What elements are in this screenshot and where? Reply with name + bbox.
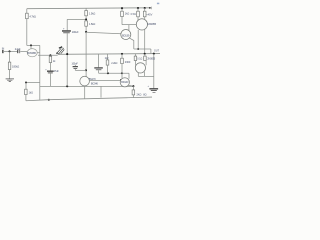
wire y73 line bbox=[99, 73, 129, 78]
transistor Q3 BD139 bbox=[121, 30, 131, 40]
svg-text:MJ2955: MJ2955 bbox=[148, 22, 157, 26]
wire R8a to Q5 bbox=[137, 17, 139, 20]
node collector T1 bbox=[30, 44, 32, 46]
wire input line bbox=[4, 50, 17, 52]
svg-text:0.5Ω: 0.5Ω bbox=[131, 13, 136, 16]
wire long vertical x40 bbox=[39, 45, 41, 100]
svg-text:8Ω: 8Ω bbox=[143, 94, 146, 97]
resistor R8b bbox=[143, 11, 146, 17]
wire left drop from top rail bbox=[26, 9, 28, 14]
svg-text:1kΩ: 1kΩ bbox=[29, 92, 34, 95]
wire R9 stub bbox=[135, 54, 137, 56]
resistor R8a bbox=[137, 11, 140, 17]
wire top tap horizontal bbox=[67, 18, 86, 20]
wire R7 lower bbox=[121, 17, 123, 25]
wire R5 down bbox=[107, 65, 109, 73]
wire C3 to collector node bbox=[75, 69, 86, 71]
svg-text:1.5kΩ: 1.5kΩ bbox=[89, 22, 95, 26]
wire x86 vertical down bbox=[85, 32, 87, 77]
wire Q4 emitter out bbox=[129, 85, 134, 86]
wire T1 emitter line bbox=[37, 53, 58, 56]
wire to R12 bbox=[132, 86, 134, 90]
capacitor C5 plate B bbox=[96, 68, 102, 71]
wire T4 emitter bbox=[84, 86, 86, 99]
resistor R4 1k bbox=[49, 56, 52, 62]
svg-text:2300: 2300 bbox=[125, 60, 131, 64]
node output tap bbox=[153, 53, 155, 55]
node Q5 leg rail bbox=[144, 53, 146, 55]
wire R6 down bbox=[121, 64, 123, 79]
transistor Q5 MJ2955 bbox=[136, 19, 147, 30]
svg-text:BD140: BD140 bbox=[121, 81, 129, 84]
wire R1a R1b bbox=[85, 16, 87, 21]
wire R8b stub bbox=[144, 8, 146, 11]
transistor Q4 BD140 bbox=[120, 78, 129, 87]
resistor R2 4.7k bbox=[26, 13, 29, 19]
node R7 rail bbox=[121, 7, 123, 9]
wire C4 to feedback line bbox=[49, 73, 51, 86]
wire R10 stub bbox=[144, 54, 146, 56]
node y49 bbox=[137, 48, 139, 50]
wire R12 to rail bbox=[132, 95, 134, 98]
wire R1b down bbox=[85, 26, 87, 32]
resistor R10 bbox=[144, 56, 147, 60]
svg-text:+45V: +45V bbox=[146, 13, 152, 17]
transistor T1 BC546 bbox=[27, 49, 37, 57]
capacitor C3 100n plate A bbox=[73, 66, 78, 67]
wire R4 to C4 bbox=[49, 63, 51, 71]
resistor R7 1k bbox=[121, 11, 124, 16]
capacitor C2 100uF plate A bbox=[62, 30, 71, 31]
wire R2 to collector node bbox=[26, 19, 28, 46]
wire R1a stub bbox=[85, 8, 87, 10]
svg-text:100kΩ: 100kΩ bbox=[12, 64, 19, 68]
capacitor C5 shunt stub bbox=[98, 54, 100, 67]
wire y49 line bbox=[134, 49, 151, 54]
wire Q5 leg right bbox=[144, 30, 146, 54]
node feedback tap bbox=[49, 54, 51, 56]
svg-text:100nF: 100nF bbox=[72, 63, 79, 66]
node R8a rail bbox=[137, 7, 139, 9]
wire base drive to BD139 bbox=[86, 32, 121, 34]
node feedback x67 bbox=[66, 85, 68, 87]
wire bias tap line bbox=[26, 82, 40, 84]
resistor R3 100k bbox=[8, 62, 11, 69]
wire R6 stub bbox=[121, 54, 123, 58]
node base drive bbox=[85, 31, 87, 33]
wire top supply rail bbox=[27, 7, 152, 10]
svg-text:47uF: 47uF bbox=[54, 70, 60, 73]
node R8b rail bbox=[144, 7, 146, 9]
transistor Q6 2N3055 bbox=[135, 63, 145, 73]
capacitor C1 input plate B bbox=[18, 50, 21, 54]
node bottom rail bbox=[48, 99, 50, 101]
wire cap to base bbox=[20, 50, 27, 52]
ground output bbox=[153, 91, 156, 94]
capacitor C3 100n plate B bbox=[74, 67, 78, 70]
resistor R1a 1.5k bbox=[85, 11, 88, 16]
node Q4 emitter bbox=[132, 85, 134, 87]
wire resistor R3 drop bbox=[9, 51, 11, 62]
svg-text:100uF: 100uF bbox=[72, 30, 79, 34]
resistor R5 2.2k bbox=[106, 60, 109, 65]
wire Q5 leg left bbox=[137, 30, 139, 49]
svg-text:2N3055: 2N3055 bbox=[147, 56, 156, 60]
capacitor C1 input plate A bbox=[16, 50, 19, 54]
svg-text:0.1Ω: 0.1Ω bbox=[137, 59, 142, 61]
node y73 a bbox=[107, 72, 109, 74]
capacitor C4 47uF plate A bbox=[47, 71, 54, 72]
wire Q6 top legs bbox=[136, 61, 147, 66]
potentiometer P1 bbox=[56, 46, 64, 55]
node bias tap bbox=[25, 82, 27, 84]
node tap x86 bbox=[85, 18, 87, 20]
resistor R12 2K bbox=[132, 90, 135, 95]
svg-text:IN: IN bbox=[2, 48, 5, 51]
resistor R1b 1.5k bbox=[85, 21, 88, 26]
wire driver base line bbox=[89, 80, 120, 82]
ground input bbox=[6, 79, 14, 82]
svg-text:1.5kΩ: 1.5kΩ bbox=[89, 11, 95, 15]
transistor T4 vbe multiplier bbox=[80, 76, 90, 86]
svg-text:BD139: BD139 bbox=[122, 33, 130, 37]
wire R4 stub bbox=[49, 55, 51, 56]
svg-text:OUT: OUT bbox=[154, 49, 160, 52]
node R6 rail bbox=[121, 53, 123, 55]
wire C3 stub bbox=[74, 65, 76, 71]
wire R8b to Q5 bbox=[144, 17, 146, 20]
wire R8a stub bbox=[137, 8, 139, 11]
wire R5 stub bbox=[107, 54, 109, 60]
wire top tap corner x67 bbox=[66, 19, 68, 30]
wire collector stub down bbox=[30, 45, 32, 49]
wire Q3 emitter bbox=[129, 38, 134, 49]
capacitor C2 100uF plate B bbox=[63, 31, 70, 34]
capacitor C6 output plate A bbox=[149, 88, 158, 89]
capacitor C6 output plate B bbox=[151, 89, 157, 92]
wire to R11 bbox=[25, 83, 27, 90]
terminal supply tick bbox=[150, 7, 152, 10]
node driver base bbox=[120, 79, 122, 81]
wire Q3 collector up bbox=[128, 25, 130, 31]
wire bottom ground rail bbox=[26, 97, 152, 101]
wire collector link line bbox=[122, 24, 137, 26]
node C2 mid rail bbox=[66, 53, 68, 55]
node top rail right bbox=[149, 7, 151, 9]
wire feedback bottom line bbox=[40, 85, 134, 87]
node input divider bbox=[9, 50, 11, 52]
svg-text:2.2kΩ: 2.2kΩ bbox=[111, 62, 117, 65]
capacitor C5 plate A bbox=[94, 67, 103, 68]
svg-text:4.7kΩ: 4.7kΩ bbox=[29, 15, 36, 19]
wire R3 to ground bbox=[9, 70, 11, 79]
wire mid output rail bbox=[58, 53, 160, 56]
resistor R6 bbox=[121, 58, 124, 63]
resistor R9 bbox=[134, 56, 137, 60]
watermark corner mark bbox=[157, 3, 159, 4]
svg-text:2.2uF: 2.2uF bbox=[15, 48, 21, 51]
wire C5 down bbox=[98, 70, 100, 73]
capacitor C4 47uF plate B bbox=[48, 72, 53, 75]
svg-text:BC546: BC546 bbox=[91, 82, 99, 85]
wire Q6 bottom legs bbox=[138, 72, 144, 77]
wire C2 down long bbox=[66, 33, 68, 86]
wire output cap drop bbox=[153, 54, 155, 89]
wire emitter drop x101 bbox=[100, 86, 102, 97]
svg-text:1kΩ: 1kΩ bbox=[125, 13, 130, 16]
node y73 b bbox=[121, 72, 123, 74]
svg-text:BS170: BS170 bbox=[89, 78, 97, 81]
svg-text:2KΩ: 2KΩ bbox=[137, 94, 142, 97]
wire R7 stub bbox=[121, 8, 123, 11]
terminal input jack bbox=[2, 50, 3, 53]
node vbe collector bbox=[85, 69, 87, 71]
resistor R11 1k bbox=[25, 89, 28, 94]
svg-text:BC546B: BC546B bbox=[27, 51, 36, 55]
wire R11 to bottom rail bbox=[25, 95, 27, 101]
wire Q6 emitter to output bbox=[138, 75, 154, 77]
wire collector node horizontal bbox=[27, 44, 40, 46]
